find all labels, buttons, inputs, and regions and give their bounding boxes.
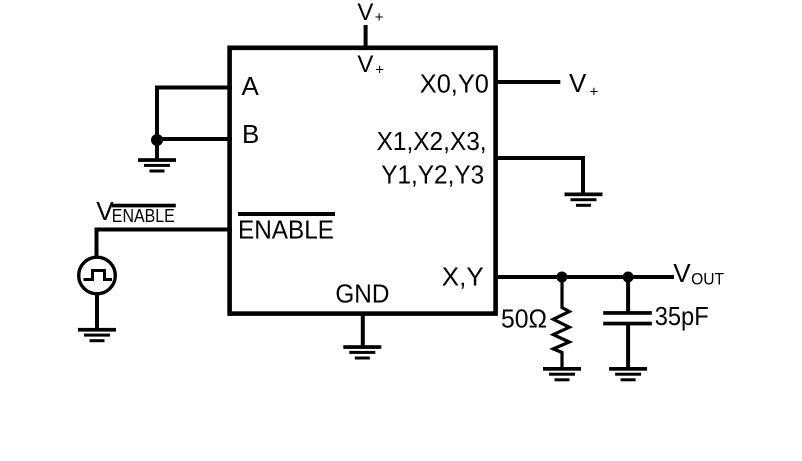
wire: X1..Y3 pins to ground — [496, 158, 584, 193]
svg-text:50Ω: 50Ω — [501, 304, 547, 334]
svg-text:V: V — [357, 0, 373, 26]
ground (R1) — [543, 367, 581, 381]
svg-text:B: B — [242, 119, 259, 149]
wire: pin B to tie bus — [157, 137, 232, 141]
wire: X,Y output net — [496, 275, 675, 279]
junction dot A/B tie — [151, 134, 163, 146]
resistor R1 50 ohm — [553, 275, 569, 368]
svg-text:X,Y: X,Y — [442, 262, 484, 292]
ground (X1..Y3) — [565, 193, 603, 207]
wire: top V+ stub — [364, 25, 368, 48]
svg-text:X1,X2,X3,: X1,X2,X3, — [377, 126, 487, 156]
ground (GND pin) — [343, 345, 381, 359]
wire: pulse source to ground — [95, 294, 99, 330]
ground (pulse source) — [78, 328, 116, 342]
svg-text:V: V — [673, 258, 691, 288]
svg-text:OUT: OUT — [691, 270, 724, 289]
svg-text:+: + — [375, 62, 384, 79]
wire: GND pin stub — [361, 313, 365, 346]
wire: A-B tie vertical to ground — [155, 86, 159, 161]
svg-text:+: + — [590, 83, 599, 100]
junction dot at R1 — [556, 272, 567, 283]
svg-text:Y1,Y2,Y3: Y1,Y2,Y3 — [381, 160, 484, 190]
svg-text:V: V — [357, 51, 373, 78]
svg-text:GND: GND — [335, 279, 389, 309]
IC U1 body — [230, 48, 496, 314]
capacitor C1 35pF — [626, 275, 630, 312]
svg-text:35pF: 35pF — [655, 301, 709, 331]
pin label ENABLE (with overbar) — [238, 212, 335, 216]
svg-text:A: A — [242, 71, 260, 101]
svg-text:V: V — [569, 68, 587, 98]
ground (A/B tie) — [138, 158, 176, 172]
svg-text:+: + — [375, 9, 384, 26]
junction dot at C1 — [623, 272, 634, 283]
wire: X0,Y0 pin to V+ — [496, 80, 561, 84]
wire: ENABLE pin to pulse source — [97, 230, 233, 258]
svg-text:ENABLE: ENABLE — [112, 206, 175, 226]
svg-text:X0,Y0: X0,Y0 — [420, 69, 489, 99]
ground (C1) — [609, 367, 647, 381]
wire: pin A to tie bus — [157, 86, 232, 90]
svg-text:ENABLE: ENABLE — [238, 215, 334, 245]
pulse source V1 — [79, 257, 116, 294]
